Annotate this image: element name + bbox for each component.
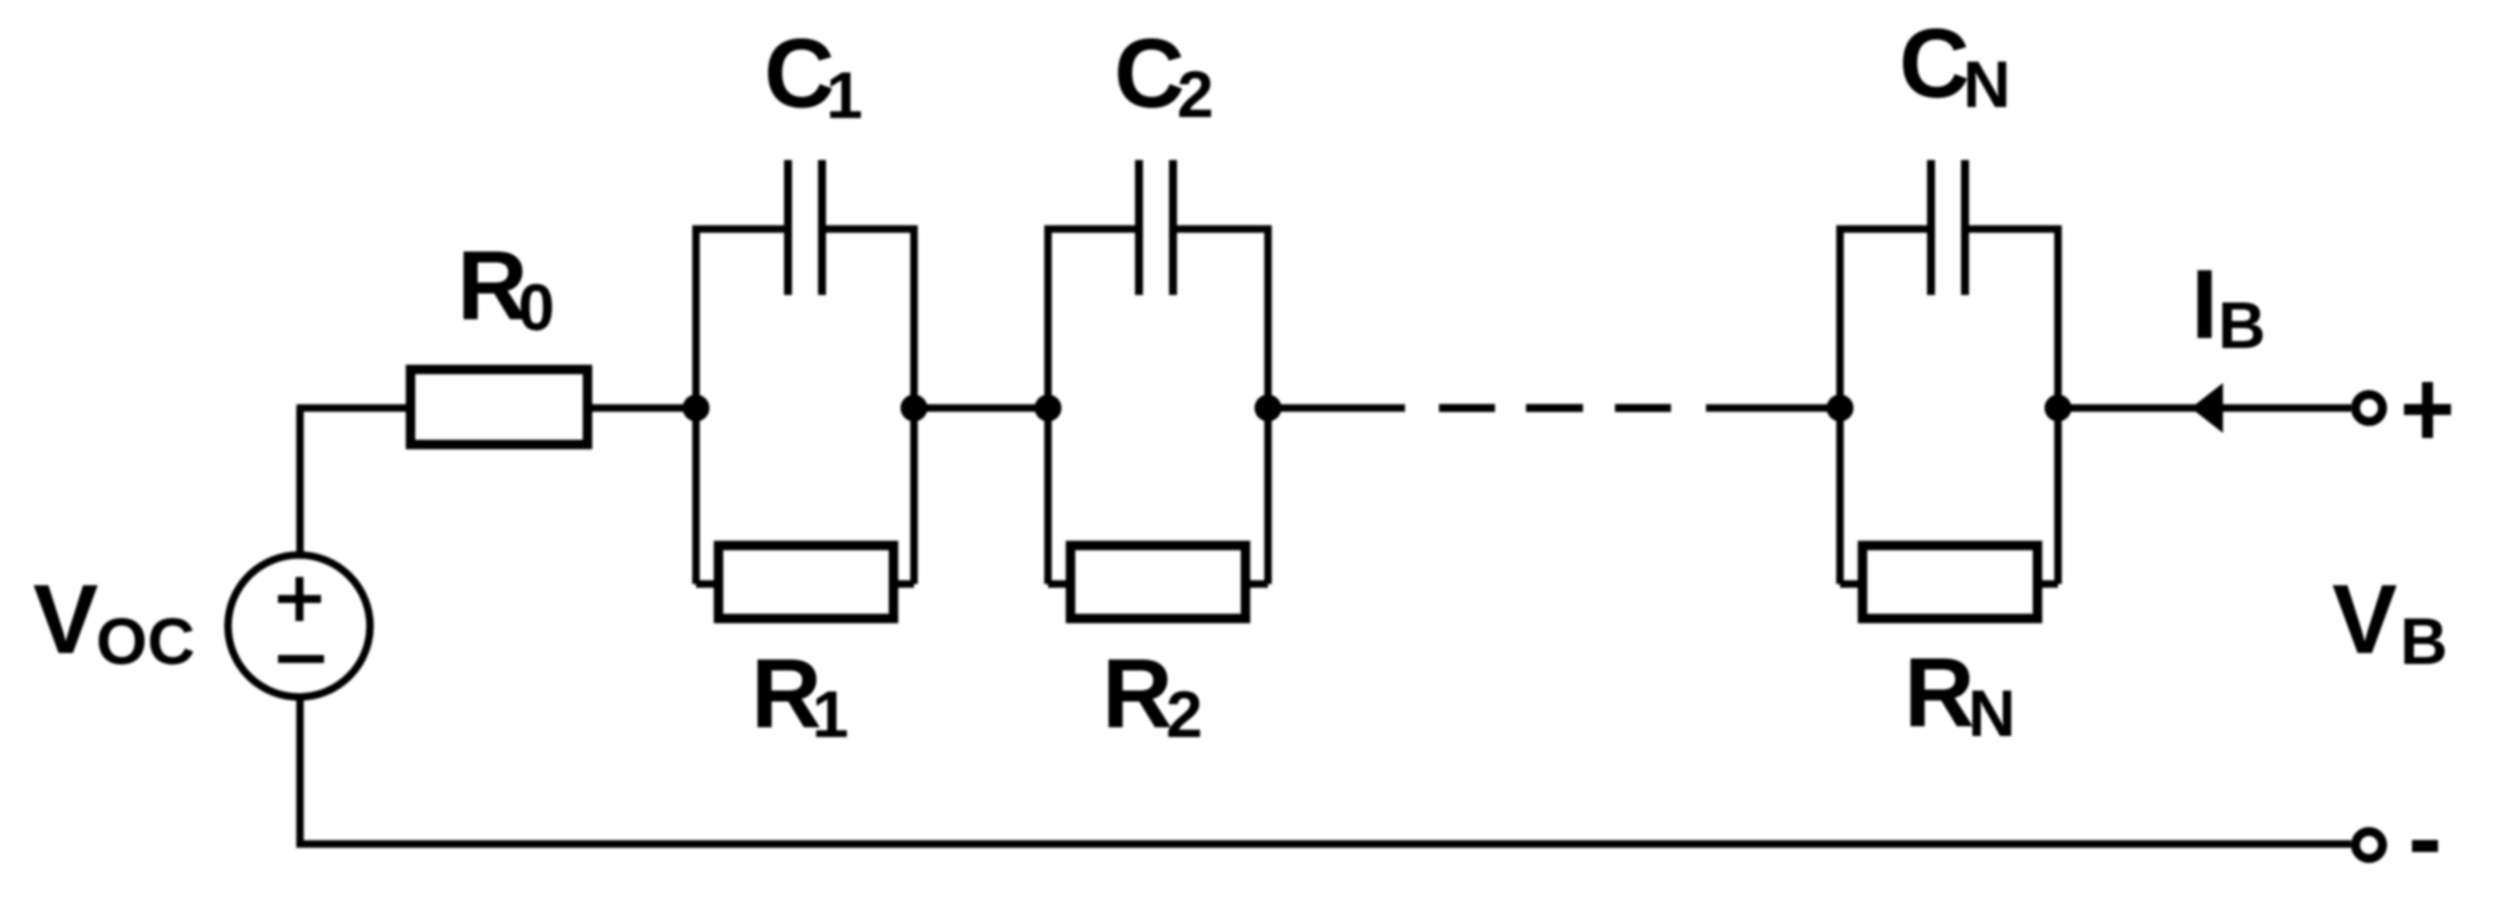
node junction dot left of RC1 bbox=[683, 395, 710, 422]
wire RC1 jog left bbox=[696, 580, 716, 588]
label R1 bbox=[751, 638, 849, 751]
label IB bbox=[2191, 249, 2266, 362]
wire bottom return bbox=[297, 840, 2352, 848]
capacitor CN bbox=[1931, 160, 1965, 295]
wire RC2 left vertical bbox=[1044, 226, 1052, 585]
wire RCN left vertical bbox=[1836, 226, 1844, 585]
svg-text:B: B bbox=[2400, 604, 2448, 678]
resistor R0 bbox=[411, 370, 588, 445]
wire source bottom vertical bbox=[296, 696, 304, 848]
svg-text:V: V bbox=[2332, 564, 2397, 674]
label CN bbox=[1899, 8, 2011, 121]
wire RC2 jog left bbox=[1048, 580, 1069, 588]
svg-text:N: N bbox=[1963, 47, 2011, 121]
svg-text:I: I bbox=[2191, 249, 2218, 359]
wire RC1 top left stub bbox=[693, 225, 790, 233]
wire RC2 right vertical bbox=[1264, 226, 1272, 585]
svg-text:C: C bbox=[1899, 8, 1970, 118]
svg-text:1: 1 bbox=[826, 58, 863, 132]
svg-text:2: 2 bbox=[1166, 677, 1203, 751]
node junction dot right of RCN bbox=[2045, 395, 2072, 422]
wire RC1 right vertical bbox=[910, 226, 918, 585]
voltage source plus mark bbox=[278, 577, 321, 621]
svg-text:1: 1 bbox=[812, 677, 849, 751]
wire dashed section to RCN bbox=[1706, 404, 1840, 412]
wire RCN jog right bbox=[2039, 580, 2058, 588]
wire RCN jog left bbox=[1840, 580, 1861, 588]
wire RC2 jog right bbox=[1247, 580, 1268, 588]
svg-text:C: C bbox=[764, 18, 835, 128]
wire RCN right vertical bbox=[2054, 226, 2062, 585]
wire RC1 jog right bbox=[896, 580, 914, 588]
resistor R1 bbox=[719, 546, 894, 619]
svg-text:OC: OC bbox=[96, 604, 195, 678]
voltage source U Voc circle bbox=[228, 555, 370, 697]
wire dashed continuation bbox=[1439, 404, 1671, 412]
negative terminal minus mark bbox=[2412, 840, 2438, 852]
wire source top vertical bbox=[296, 408, 304, 557]
wire top-left to R0 bbox=[297, 404, 407, 412]
wire RC1 to RC2 bbox=[914, 404, 1048, 412]
label R0 bbox=[457, 230, 555, 344]
resistor RN bbox=[1863, 546, 2038, 619]
svg-text:0: 0 bbox=[518, 270, 555, 344]
wire RC1 left vertical bbox=[692, 226, 700, 585]
wire R0 to node A bbox=[592, 404, 696, 412]
wire RC2 to dashed section bbox=[1268, 404, 1405, 412]
label C2 bbox=[1114, 18, 1214, 131]
current IB arrowhead bbox=[2191, 383, 2223, 433]
svg-text:B: B bbox=[2218, 288, 2266, 362]
capacitor C1 bbox=[788, 160, 822, 295]
svg-text:V: V bbox=[33, 564, 98, 674]
capacitor C2 bbox=[1139, 160, 1173, 295]
svg-text:R: R bbox=[1904, 637, 1975, 747]
svg-text:C: C bbox=[1114, 18, 1185, 128]
label Voc bbox=[33, 564, 195, 678]
wire RC2 top left stub bbox=[1045, 225, 1141, 233]
wire RCN top right stub bbox=[1964, 225, 2062, 233]
wire RCN to positive terminal bbox=[2058, 404, 2351, 412]
wire RC1 top right stub bbox=[821, 225, 918, 233]
voltage source minus mark bbox=[278, 655, 324, 663]
node junction dot right of RC1 bbox=[901, 395, 928, 422]
resistor R2 bbox=[1071, 546, 1246, 619]
label VB bbox=[2332, 564, 2448, 678]
negative terminal circle bbox=[2356, 832, 2383, 859]
label R2 bbox=[1102, 638, 1203, 751]
svg-text:N: N bbox=[1968, 676, 2016, 750]
svg-text:2: 2 bbox=[1177, 57, 1214, 131]
label RN bbox=[1904, 637, 2016, 750]
positive terminal circle bbox=[2356, 395, 2383, 422]
wire RC2 top right stub bbox=[1172, 225, 1272, 233]
svg-text:R: R bbox=[1102, 638, 1173, 748]
node junction dot left of RCN bbox=[1827, 395, 1854, 422]
node junction dot right of RC2 bbox=[1255, 395, 1282, 422]
node junction dot left of RC2 bbox=[1035, 395, 1062, 422]
positive terminal plus mark bbox=[2404, 382, 2451, 438]
label C1 bbox=[764, 18, 863, 132]
wire RCN top left stub bbox=[1837, 225, 1933, 233]
